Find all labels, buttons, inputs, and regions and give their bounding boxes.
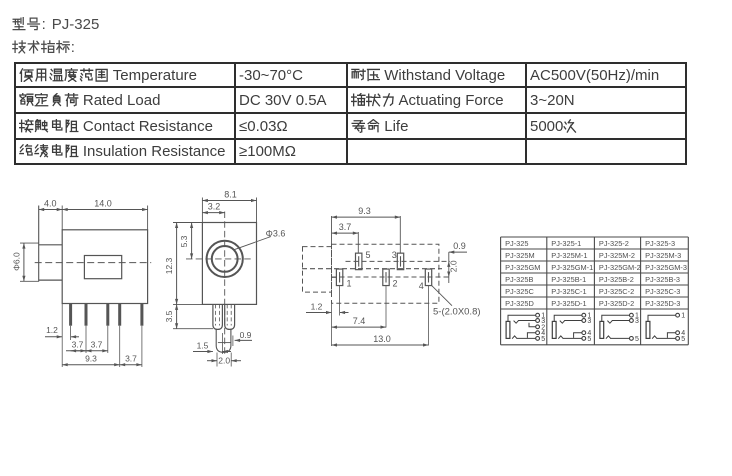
svg-text:PJ-325C-2: PJ-325C-2 bbox=[599, 287, 634, 296]
svg-text:PJ-325B-2: PJ-325B-2 bbox=[599, 275, 634, 284]
svg-text:2.0: 2.0 bbox=[218, 356, 230, 366]
svg-text:PJ-325: PJ-325 bbox=[505, 239, 528, 248]
svg-text:PJ-325M-3: PJ-325M-3 bbox=[645, 251, 681, 260]
svg-text:PJ-325C: PJ-325C bbox=[505, 287, 534, 296]
svg-text:PJ-325GM-2: PJ-325GM-2 bbox=[599, 263, 641, 272]
svg-text:2.0: 2.0 bbox=[449, 260, 459, 272]
svg-text:5-(2.0X0.8): 5-(2.0X0.8) bbox=[433, 307, 481, 318]
svg-text:4: 4 bbox=[541, 330, 545, 337]
svg-text:1: 1 bbox=[347, 279, 352, 289]
svg-text:PJ-325-1: PJ-325-1 bbox=[551, 239, 581, 248]
svg-text:PJ-325M: PJ-325M bbox=[505, 251, 535, 260]
svg-text:PJ-325B-3: PJ-325B-3 bbox=[645, 275, 680, 284]
svg-text:4: 4 bbox=[681, 330, 685, 337]
svg-text:4: 4 bbox=[587, 330, 591, 337]
svg-text:12.3: 12.3 bbox=[164, 257, 174, 274]
svg-text:3.7: 3.7 bbox=[91, 340, 103, 350]
svg-text:3.7: 3.7 bbox=[72, 340, 84, 350]
svg-text:0.9: 0.9 bbox=[453, 241, 466, 251]
svg-text:1.2: 1.2 bbox=[46, 325, 58, 335]
svg-text:Φ6.0: Φ6.0 bbox=[12, 252, 22, 271]
svg-text:PJ-325C-3: PJ-325C-3 bbox=[645, 287, 680, 296]
svg-text:3.7: 3.7 bbox=[125, 353, 137, 363]
svg-text:9.3: 9.3 bbox=[85, 353, 97, 363]
svg-text:3: 3 bbox=[635, 318, 639, 325]
svg-text:PJ-325D: PJ-325D bbox=[505, 299, 534, 308]
svg-text:PJ-325B: PJ-325B bbox=[505, 275, 533, 284]
svg-text:13.0: 13.0 bbox=[373, 334, 391, 344]
svg-text:PJ-325D-1: PJ-325D-1 bbox=[551, 299, 586, 308]
svg-text:PJ-325-2: PJ-325-2 bbox=[599, 239, 629, 248]
svg-text:PJ-325GM: PJ-325GM bbox=[505, 263, 540, 272]
svg-text:0.9: 0.9 bbox=[240, 330, 252, 340]
svg-text:PJ-325GM-3: PJ-325GM-3 bbox=[645, 263, 687, 272]
svg-text:PJ-325M-1: PJ-325M-1 bbox=[551, 251, 587, 260]
svg-text:PJ-325D-2: PJ-325D-2 bbox=[599, 299, 634, 308]
svg-text:3.7: 3.7 bbox=[339, 222, 352, 232]
svg-text:PJ-325-3: PJ-325-3 bbox=[645, 239, 675, 248]
svg-text:PJ-325D-3: PJ-325D-3 bbox=[645, 299, 680, 308]
svg-text:5: 5 bbox=[366, 250, 371, 260]
svg-text:PJ-325M-2: PJ-325M-2 bbox=[599, 251, 635, 260]
svg-text:3.5: 3.5 bbox=[164, 310, 174, 322]
svg-text:5.3: 5.3 bbox=[179, 235, 189, 247]
svg-text:3.2: 3.2 bbox=[208, 201, 221, 211]
svg-text:PJ-325B-1: PJ-325B-1 bbox=[551, 275, 586, 284]
svg-text:1.2: 1.2 bbox=[311, 301, 323, 311]
svg-text:PJ-325GM-1: PJ-325GM-1 bbox=[551, 263, 593, 272]
svg-text:PJ-325C-1: PJ-325C-1 bbox=[551, 287, 586, 296]
svg-text:5: 5 bbox=[635, 336, 639, 343]
svg-text:4: 4 bbox=[419, 281, 424, 291]
svg-text:8.1: 8.1 bbox=[224, 189, 237, 199]
svg-text:3: 3 bbox=[587, 318, 591, 325]
svg-text:Φ3.6: Φ3.6 bbox=[266, 229, 286, 239]
svg-text:7.4: 7.4 bbox=[353, 316, 366, 326]
svg-text:9.3: 9.3 bbox=[358, 206, 371, 216]
svg-text:3: 3 bbox=[392, 250, 397, 260]
svg-text:2: 2 bbox=[393, 279, 398, 289]
svg-text:14.0: 14.0 bbox=[94, 198, 112, 208]
svg-text:1.5: 1.5 bbox=[197, 341, 209, 351]
svg-text:1: 1 bbox=[681, 313, 685, 320]
svg-text:4.0: 4.0 bbox=[44, 198, 57, 208]
